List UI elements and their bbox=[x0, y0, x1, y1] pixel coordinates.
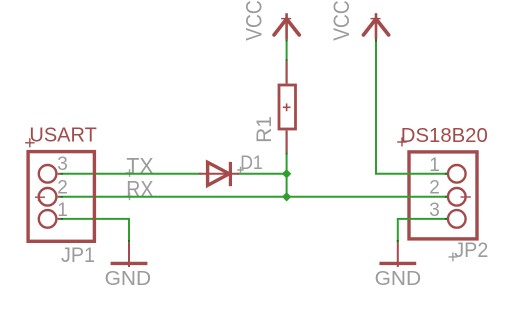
supply VCC symbol (right) bbox=[364, 13, 389, 39]
label USART origin cross bbox=[25, 138, 34, 147]
JP1 pin 3 circle bbox=[39, 165, 57, 183]
svg-text:R1: R1 bbox=[253, 116, 276, 143]
ground GND (right) bbox=[379, 242, 416, 267]
svg-text:2: 2 bbox=[429, 177, 440, 198]
JP1 pin 1 circle bbox=[39, 210, 57, 228]
wire: JP1 pin 1 to ground bbox=[58, 219, 129, 242]
wire: diode D1 cathode to junction bbox=[238, 173, 287, 175]
svg-text:USART: USART bbox=[29, 124, 96, 146]
connector JP1 origin cross bbox=[35, 193, 45, 201]
junction node DQ/RX bbox=[282, 192, 291, 201]
JP2 pin 3 circle bbox=[448, 210, 466, 228]
svg-text:GND: GND bbox=[105, 268, 152, 290]
ground GND (left) bbox=[111, 242, 148, 267]
connector JP1 body bbox=[28, 152, 94, 242]
wire RX/DQ: JP1 pin 2 to JP2 pin 2 bbox=[58, 196, 448, 198]
designator JP2 origin cross bbox=[449, 253, 458, 262]
svg-text:JP2: JP2 bbox=[454, 239, 488, 262]
resistor R1 bbox=[279, 61, 296, 152]
net label RX origin cross bbox=[126, 193, 134, 201]
svg-text:VCC: VCC bbox=[329, 0, 354, 41]
net label TX origin cross bbox=[126, 169, 134, 177]
svg-text:2: 2 bbox=[57, 177, 68, 198]
svg-text:3: 3 bbox=[429, 200, 440, 221]
svg-text:JP1: JP1 bbox=[61, 244, 95, 267]
connector JP2 origin cross bbox=[461, 193, 471, 201]
wire VCC (right) to JP2 pin 1 bbox=[376, 39, 447, 174]
junction node DQ/TX bbox=[282, 169, 291, 178]
svg-text:GND: GND bbox=[375, 268, 422, 290]
JP2 pin 2 circle bbox=[448, 188, 466, 206]
svg-text:D1: D1 bbox=[240, 153, 263, 174]
diode D1 bbox=[199, 162, 239, 186]
wire R1 bottom to DQ junctions bbox=[286, 152, 288, 196]
svg-text:1: 1 bbox=[57, 200, 68, 221]
JP1 pin 2 circle bbox=[39, 188, 57, 206]
svg-text:DS18B20: DS18B20 bbox=[401, 125, 488, 147]
supply VCC symbol (left) bbox=[274, 13, 299, 39]
wire VCC to resistor R1 top bbox=[286, 39, 288, 61]
label DS18B20 origin cross bbox=[397, 137, 407, 146]
wire: JP2 pin 3 to ground bbox=[398, 219, 447, 242]
JP2 pin 1 circle bbox=[448, 165, 466, 183]
label D1 origin cross bbox=[237, 167, 244, 174]
connector JP2 body bbox=[409, 152, 477, 239]
svg-text:3: 3 bbox=[57, 154, 68, 175]
svg-text:VCC: VCC bbox=[242, 0, 267, 41]
svg-text:1: 1 bbox=[429, 155, 440, 176]
wire TX: JP1 pin 3 to diode D1 anode bbox=[58, 173, 201, 175]
